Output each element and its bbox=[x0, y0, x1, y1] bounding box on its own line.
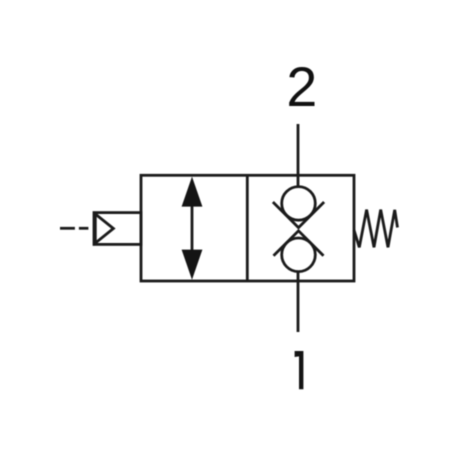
svg-text:2: 2 bbox=[286, 56, 317, 118]
